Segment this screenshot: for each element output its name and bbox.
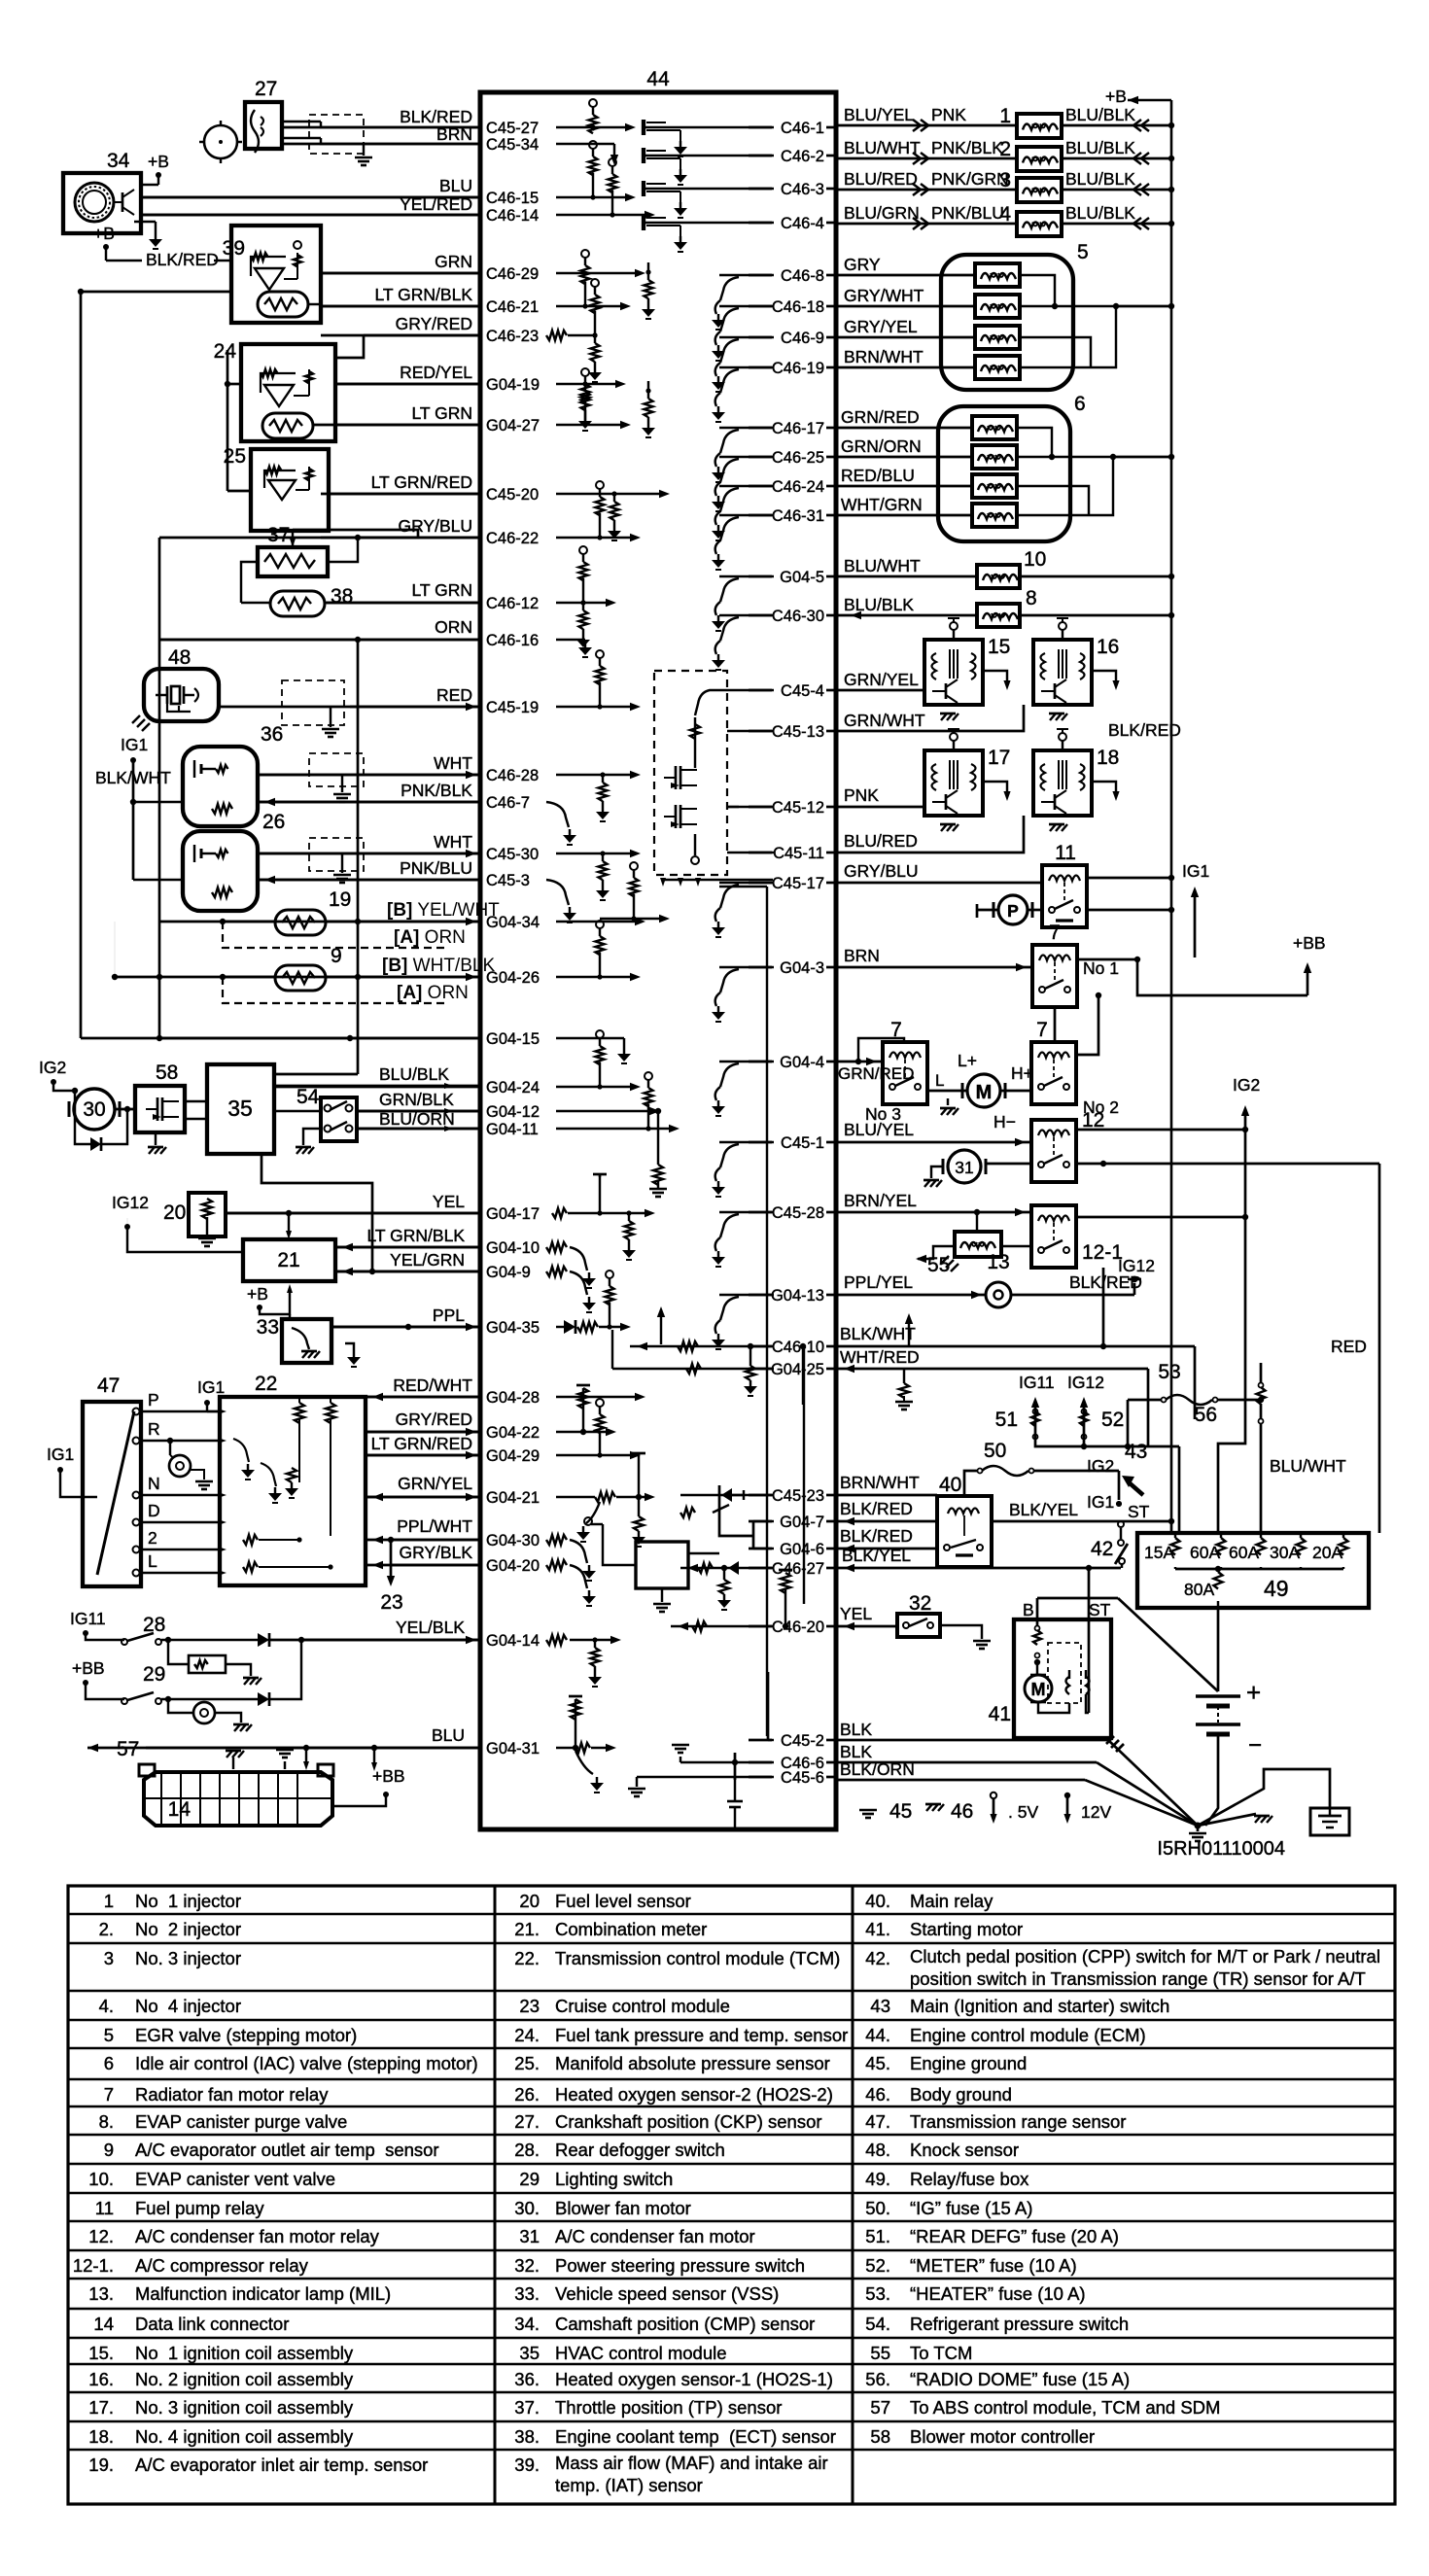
svg-text:No. 3 injector: No. 3 injector	[135, 1948, 241, 1968]
ST wire to starting motor	[1088, 1568, 1091, 1618]
svg-text:C46-16: C46-16	[486, 632, 539, 649]
svg-text:GRY/WHT: GRY/WHT	[844, 286, 924, 305]
svg-text:16: 16	[1097, 636, 1119, 658]
svg-text:BLU/RED: BLU/RED	[844, 831, 918, 851]
svg-text:C46-12: C46-12	[486, 595, 539, 612]
ECM internal driver block (C45-4/13/12/11)	[654, 671, 727, 875]
svg-text:BLU/YEL: BLU/YEL	[844, 1120, 914, 1139]
svg-text:56.: 56.	[865, 2369, 890, 2389]
svg-text:Throttle position (TP) sensor: Throttle position (TP) sensor	[555, 2397, 782, 2418]
svg-text:PNK/BLK: PNK/BLK	[401, 781, 472, 800]
svg-text:25: 25	[224, 445, 246, 468]
svg-text:13.: 13.	[88, 2283, 114, 2304]
svg-text:C45-11: C45-11	[773, 845, 824, 862]
svg-text:No 1 injector: No 1 injector	[135, 1891, 241, 1911]
svg-text:18.: 18.	[88, 2426, 114, 2447]
svg-text:C46-1: C46-1	[781, 120, 824, 137]
svg-text:L: L	[148, 1551, 157, 1571]
svg-text:PPL/WHT: PPL/WHT	[397, 1516, 472, 1536]
svg-text:15.: 15.	[88, 2343, 114, 2363]
svg-text:PPL/YEL: PPL/YEL	[844, 1272, 913, 1292]
svg-text:Clutch pedal position (CPP) sw: Clutch pedal position (CPP) switch for M…	[910, 1946, 1380, 1967]
svg-text:1: 1	[104, 1891, 114, 1911]
svg-text:7: 7	[1036, 1019, 1048, 1041]
TCM to ECM wires	[366, 1396, 480, 1399]
engine control module ECM U44 box	[480, 92, 836, 1829]
svg-text:YEL/GRN: YEL/GRN	[390, 1250, 465, 1270]
svg-text:G04-5: G04-5	[780, 569, 824, 586]
svg-text:M: M	[976, 1082, 993, 1103]
svg-text:BRN: BRN	[436, 124, 472, 144]
svg-text:BRN/WHT: BRN/WHT	[840, 1473, 920, 1492]
svg-text:29: 29	[143, 1663, 165, 1686]
svg-text:C46-29: C46-29	[486, 265, 539, 283]
svg-text:D: D	[148, 1501, 160, 1520]
svg-text:BLU/YEL: BLU/YEL	[844, 105, 914, 124]
svg-text:53.: 53.	[865, 2283, 890, 2304]
combination meter 21	[243, 1239, 335, 1281]
radiator fan motor M	[967, 1074, 1000, 1107]
svg-text:C45-19: C45-19	[486, 699, 539, 716]
svg-text:BLU/RED: BLU/RED	[844, 169, 918, 189]
svg-text:2: 2	[999, 138, 1011, 160]
svg-text:ST: ST	[1089, 1600, 1111, 1619]
svg-text:RED/WHT: RED/WHT	[393, 1375, 472, 1395]
svg-text:12-1: 12-1	[1082, 1241, 1123, 1264]
svg-text:33: 33	[257, 1316, 279, 1339]
svg-text:+B: +B	[247, 1284, 268, 1304]
svg-text:LT GRN/RED: LT GRN/RED	[371, 1434, 472, 1453]
svg-text:YEL/RED: YEL/RED	[400, 194, 472, 214]
svg-text:27.: 27.	[514, 2111, 540, 2132]
svg-text:Blower fan motor: Blower fan motor	[555, 2198, 691, 2218]
svg-text:BLU/BLK: BLU/BLK	[844, 595, 914, 614]
svg-text:IG11: IG11	[70, 1609, 106, 1628]
svg-text:20: 20	[519, 1891, 540, 1911]
svg-text:23: 23	[519, 1996, 540, 2016]
svg-text:C46-25: C46-25	[772, 449, 824, 467]
wire rail from MAF area down	[80, 292, 83, 1038]
svg-text:19: 19	[329, 888, 351, 911]
svg-text:G04-12: G04-12	[486, 1103, 540, 1121]
svg-text:C46-20: C46-20	[772, 1619, 824, 1636]
svg-text:22: 22	[255, 1373, 277, 1395]
svg-text:RED/YEL: RED/YEL	[400, 363, 472, 382]
svg-text:Relay/fuse box: Relay/fuse box	[910, 2169, 1029, 2189]
A/C compressor relay 12-1	[1031, 1205, 1076, 1268]
A/C condenser fan motor relay 12	[1031, 1120, 1076, 1182]
svg-text:WHT/GRN: WHT/GRN	[841, 495, 923, 514]
svg-text:No 1: No 1	[1083, 958, 1119, 978]
svg-text:12: 12	[1082, 1109, 1104, 1131]
svg-text:35: 35	[519, 2343, 540, 2363]
svg-text:PNK: PNK	[844, 785, 879, 805]
ECM internal vertical 2	[803, 1346, 805, 1604]
svg-text:IG11: IG11	[1019, 1373, 1055, 1392]
wire ORN junction to HVAC	[357, 640, 360, 1074]
svg-text:WHT: WHT	[434, 753, 472, 773]
svg-text:BLU/GRN: BLU/GRN	[844, 203, 920, 223]
svg-text:Refrigerant pressure switch: Refrigerant pressure switch	[910, 2314, 1129, 2334]
svg-text:C46-3: C46-3	[781, 181, 824, 198]
svg-text:“RADIO DOME” fuse (15 A): “RADIO DOME” fuse (15 A)	[910, 2369, 1130, 2389]
svg-text:PNK/BLU: PNK/BLU	[400, 858, 472, 878]
ECM pins G04-7/G04-6 bracket	[752, 1521, 755, 1549]
svg-text:LT GRN/BLK: LT GRN/BLK	[375, 285, 473, 304]
svg-text:38.: 38.	[514, 2426, 540, 2447]
svg-text:36: 36	[261, 723, 283, 746]
svg-text:L: L	[935, 1071, 944, 1090]
svg-text:35: 35	[227, 1096, 253, 1121]
svg-text:A/C compressor relay: A/C compressor relay	[135, 2255, 309, 2276]
ORN bus wire	[81, 1037, 480, 1040]
svg-text:G04-15: G04-15	[486, 1030, 540, 1048]
svg-text:Lighting switch: Lighting switch	[555, 2169, 673, 2189]
svg-text:33.: 33.	[514, 2283, 540, 2304]
svg-text:60A: 60A	[1229, 1543, 1259, 1562]
svg-text:G04-10: G04-10	[486, 1239, 540, 1257]
svg-text:12.: 12.	[88, 2226, 114, 2246]
svg-text:Heated oxygen sensor-2 (HO2S-2: Heated oxygen sensor-2 (HO2S-2)	[555, 2084, 833, 2105]
svg-text:21.: 21.	[514, 1919, 540, 1939]
svg-text:G04-30: G04-30	[486, 1532, 540, 1549]
A/C evaporator outlet air temp sensor 9	[275, 965, 326, 991]
svg-text:C46-31: C46-31	[772, 507, 824, 525]
svg-text:R: R	[148, 1419, 160, 1439]
svg-text:No. 3 ignition coil assembly: No. 3 ignition coil assembly	[135, 2397, 354, 2418]
svg-text:“REAR DEFG” fuse (20 A): “REAR DEFG” fuse (20 A)	[910, 2226, 1119, 2246]
svg-text:26: 26	[262, 811, 285, 833]
svg-text:30.: 30.	[514, 2198, 540, 2218]
svg-text:C46-10: C46-10	[772, 1339, 824, 1356]
svg-text:WHT/RED: WHT/RED	[840, 1347, 920, 1367]
svg-text:46: 46	[951, 1800, 973, 1823]
svg-text:+B: +B	[1105, 87, 1127, 106]
svg-text:G04-7: G04-7	[780, 1514, 824, 1531]
No 3 ignition coil assembly 17	[924, 750, 983, 816]
svg-text:G04-29: G04-29	[486, 1447, 540, 1465]
svg-text:To ABS control module, TCM and: To ABS control module, TCM and SDM	[910, 2397, 1220, 2418]
svg-text:Body ground: Body ground	[910, 2084, 1012, 2105]
svg-text:53: 53	[1158, 1361, 1180, 1383]
svg-text:IG12: IG12	[1067, 1373, 1104, 1392]
legend table	[68, 1886, 1395, 2504]
svg-text:BLU: BLU	[432, 1725, 465, 1745]
svg-text:38: 38	[331, 585, 353, 608]
svg-text:C46-28: C46-28	[486, 767, 539, 784]
svg-text:43: 43	[870, 1996, 890, 2016]
svg-text:C46-7: C46-7	[486, 794, 530, 812]
svg-text:C45-13: C45-13	[772, 723, 824, 741]
svg-text:BLK/RED: BLK/RED	[1108, 720, 1181, 740]
svg-text:43: 43	[1125, 1441, 1147, 1463]
svg-text:LT GRN: LT GRN	[411, 580, 472, 600]
svg-text:IG1: IG1	[121, 735, 148, 754]
svg-text:50.: 50.	[865, 2198, 890, 2218]
svg-text:BLU/BLK: BLU/BLK	[1065, 169, 1135, 189]
svg-text:[A] ORN: [A] ORN	[394, 927, 466, 948]
svg-text:EVAP canister purge valve: EVAP canister purge valve	[135, 2111, 347, 2132]
svg-text:20: 20	[163, 1201, 186, 1224]
svg-text:HVAC control module: HVAC control module	[555, 2343, 727, 2363]
svg-text:GRY/RED: GRY/RED	[396, 314, 472, 333]
svg-text:7: 7	[104, 2084, 114, 2105]
wire evap sensors to HVAC	[274, 1073, 358, 1076]
svg-text:17.: 17.	[88, 2397, 114, 2418]
svg-text:LT GRN/BLK: LT GRN/BLK	[367, 1226, 466, 1245]
svg-text:G04-27: G04-27	[486, 417, 540, 435]
svg-text:BLU/BLK: BLU/BLK	[1065, 105, 1135, 124]
svg-text:BLK/RED: BLK/RED	[1069, 1272, 1142, 1292]
svg-text:6: 6	[104, 2053, 114, 2073]
svg-text:40: 40	[939, 1474, 961, 1496]
svg-text:C46-4: C46-4	[781, 215, 824, 232]
svg-text:GRN/ORN: GRN/ORN	[841, 436, 922, 456]
radiator fan motor relay 7 No3	[883, 1042, 927, 1104]
svg-text:IG2: IG2	[1233, 1075, 1260, 1095]
svg-text:58: 58	[870, 2426, 890, 2447]
svg-text:Engine ground: Engine ground	[910, 2053, 1027, 2073]
svg-text:+BB: +BB	[1293, 933, 1326, 953]
relay/fuse box 49	[1137, 1533, 1369, 1608]
No 4 ignition coil assembly 18	[1033, 750, 1092, 816]
svg-text:4.: 4.	[99, 1996, 114, 2016]
svg-text:IG2: IG2	[1087, 1456, 1114, 1476]
svg-text:52.: 52.	[865, 2255, 890, 2276]
svg-text:G04-11: G04-11	[486, 1121, 539, 1138]
svg-text:3: 3	[999, 169, 1011, 191]
svg-text:1: 1	[999, 105, 1011, 127]
svg-text:BRN/YEL: BRN/YEL	[844, 1191, 917, 1210]
svg-text:EVAP canister vent valve: EVAP canister vent valve	[135, 2169, 335, 2189]
svg-text:Manifold absolute pressure sen: Manifold absolute pressure sensor	[555, 2053, 830, 2073]
svg-text:G04-24: G04-24	[486, 1079, 540, 1097]
EVAP canister purge valve 8	[977, 604, 1020, 627]
svg-text:8: 8	[1026, 587, 1037, 609]
svg-text:C45-23: C45-23	[772, 1487, 824, 1505]
svg-text:11: 11	[1055, 842, 1076, 864]
svg-text:Power steering pressure switch: Power steering pressure switch	[555, 2255, 805, 2276]
svg-text:Data link connector: Data link connector	[135, 2314, 289, 2334]
svg-text:RED: RED	[436, 685, 472, 705]
svg-text:51: 51	[995, 1409, 1018, 1431]
svg-text:9: 9	[104, 2140, 114, 2160]
svg-text:Mass air flow (MAF) and intake: Mass air flow (MAF) and intake air	[555, 2453, 828, 2473]
svg-text:26.: 26.	[514, 2084, 540, 2105]
svg-text:C46-2: C46-2	[781, 148, 824, 165]
svg-text:9: 9	[331, 945, 342, 967]
A/C evaporator inlet air temp sensor 19	[275, 910, 326, 935]
svg-text:“HEATER” fuse (10 A): “HEATER” fuse (10 A)	[910, 2283, 1086, 2304]
svg-text:No. 4 ignition coil assembly: No. 4 ignition coil assembly	[135, 2426, 354, 2447]
svg-text:37: 37	[267, 524, 290, 546]
svg-text:PNK: PNK	[931, 105, 966, 124]
svg-text:80A: 80A	[1184, 1580, 1214, 1599]
svg-text:36.: 36.	[514, 2369, 540, 2389]
svg-text:ST: ST	[1128, 1502, 1150, 1521]
feed to 80A	[1218, 1400, 1245, 1533]
svg-text:42.: 42.	[865, 1948, 890, 1968]
svg-text:+BB: +BB	[372, 1766, 405, 1786]
svg-text:4: 4	[999, 203, 1011, 226]
svg-text:22.: 22.	[514, 1948, 540, 1968]
svg-text:A/C condenser fan motor relay: A/C condenser fan motor relay	[135, 2226, 380, 2246]
svg-text:BLU/BLK: BLU/BLK	[1065, 138, 1135, 157]
svg-text:YEL/BLK: YEL/BLK	[396, 1618, 465, 1637]
svg-text:27: 27	[255, 78, 277, 100]
svg-text:Idle air control (IAC) valve (: Idle air control (IAC) valve (stepping m…	[135, 2053, 478, 2073]
svg-text:Engine control module (ECM): Engine control module (ECM)	[910, 2025, 1146, 2045]
svg-text:G04-25: G04-25	[771, 1361, 824, 1378]
HVAC control module 35	[207, 1064, 274, 1154]
svg-text:G04-6: G04-6	[780, 1541, 824, 1558]
svg-text:15: 15	[988, 636, 1010, 658]
svg-text:21: 21	[277, 1249, 299, 1271]
svg-text:28: 28	[143, 1614, 165, 1636]
svg-text:GRN/YEL: GRN/YEL	[398, 1474, 472, 1493]
svg-text:Transmission range sensor: Transmission range sensor	[910, 2111, 1126, 2132]
svg-text:37.: 37.	[514, 2397, 540, 2418]
svg-text:C46-15: C46-15	[486, 190, 539, 207]
svg-text:C46-21: C46-21	[486, 298, 539, 316]
svg-text:14: 14	[93, 2314, 114, 2334]
svg-text:2.: 2.	[99, 1919, 114, 1939]
svg-text:C46-9: C46-9	[781, 330, 824, 347]
svg-text:45.: 45.	[865, 2053, 890, 2073]
svg-text:29: 29	[519, 2169, 540, 2189]
svg-text:10.: 10.	[88, 2169, 114, 2189]
svg-text:C46-14: C46-14	[486, 207, 539, 225]
svg-text:BLK/RED: BLK/RED	[400, 107, 472, 126]
svg-text:No 4 injector: No 4 injector	[135, 1996, 241, 2016]
svg-text:Cruise control module: Cruise control module	[555, 1996, 730, 2016]
svg-text:A/C condenser fan motor: A/C condenser fan motor	[555, 2226, 755, 2246]
svg-text:“METER” fuse (10 A): “METER” fuse (10 A)	[910, 2255, 1077, 2276]
svg-text:Fuel tank pressure and temp. s: Fuel tank pressure and temp. sensor	[555, 2025, 848, 2045]
svg-text:41.: 41.	[865, 1919, 890, 1939]
svg-text:BLU/BLK: BLU/BLK	[379, 1064, 449, 1084]
svg-text:BLK/RED: BLK/RED	[840, 1499, 913, 1518]
svg-text:H−: H−	[993, 1112, 1016, 1131]
radiator fan motor relay 7 No1	[1032, 945, 1077, 1007]
svg-text:G04-35: G04-35	[486, 1319, 540, 1337]
radiator fan motor relay 7 No2	[1031, 1042, 1076, 1104]
svg-text:G04-22: G04-22	[486, 1424, 540, 1442]
A/C condenser fan motor 31	[948, 1150, 981, 1183]
svg-text:49.: 49.	[865, 2169, 890, 2189]
svg-text:Engine coolant temp (ECT) sen: Engine coolant temp (ECT) sensor	[555, 2426, 836, 2447]
svg-text:−: −	[1248, 1732, 1262, 1758]
svg-text:PPL: PPL	[433, 1305, 465, 1325]
svg-text:51.: 51.	[865, 2226, 890, 2246]
svg-text:+B: +B	[148, 152, 169, 171]
svg-text:54.: 54.	[865, 2314, 890, 2334]
svg-text:Camshaft position (CMP) sensor: Camshaft position (CMP) sensor	[555, 2314, 815, 2334]
ECM internal interface block	[636, 1542, 688, 1588]
crankshaft position CKP sensor 27	[245, 102, 282, 149]
svg-text:GRY/BLK: GRY/BLK	[399, 1543, 472, 1562]
svg-text:47.: 47.	[865, 2111, 890, 2132]
svg-text:C45-6: C45-6	[781, 1769, 824, 1787]
svg-text:45: 45	[889, 1800, 912, 1823]
mass air flow MAF sensor 39	[231, 226, 321, 323]
svg-text:LT GRN: LT GRN	[411, 403, 472, 423]
svg-text:5: 5	[104, 2025, 114, 2045]
svg-text:BLU/WHT: BLU/WHT	[844, 556, 921, 575]
svg-text:P: P	[148, 1390, 159, 1410]
svg-text:I5RH01110004: I5RH01110004	[1157, 1838, 1285, 1860]
svg-text:. 5V: . 5V	[1008, 1802, 1038, 1822]
svg-text:PNK/BLU: PNK/BLU	[931, 203, 1004, 223]
fuel pump motor P	[998, 895, 1028, 924]
svg-text:Rear defogger switch: Rear defogger switch	[555, 2140, 725, 2160]
svg-text:BLU/WHT: BLU/WHT	[1270, 1456, 1346, 1476]
svg-text:G04-31: G04-31	[486, 1740, 540, 1758]
svg-text:BLK/WHT: BLK/WHT	[95, 768, 171, 787]
svg-text:5: 5	[1077, 241, 1089, 263]
svg-text:56: 56	[1195, 1404, 1217, 1426]
svg-text:BLK/WHT: BLK/WHT	[840, 1324, 916, 1343]
svg-text:46.: 46.	[865, 2084, 890, 2105]
svg-text:+BB: +BB	[72, 1658, 105, 1678]
svg-text:Knock sensor: Knock sensor	[910, 2140, 1019, 2160]
svg-text:19.: 19.	[88, 2454, 114, 2475]
fuel pump relay 11	[1042, 865, 1087, 927]
svg-text:50: 50	[984, 1440, 1006, 1462]
svg-text:25.: 25.	[514, 2053, 540, 2073]
svg-text:M: M	[1031, 1680, 1046, 1699]
svg-text:BLK/RED: BLK/RED	[840, 1526, 913, 1546]
svg-text:G04-20: G04-20	[486, 1557, 540, 1575]
svg-text:49: 49	[1264, 1576, 1289, 1601]
svg-text:34.: 34.	[514, 2314, 540, 2334]
svg-text:C45-3: C45-3	[486, 872, 530, 889]
engine coolant temp ECT sensor 38	[270, 591, 325, 616]
svg-text:A/C evaporator inlet air temp.: A/C evaporator inlet air temp. sensor	[135, 2454, 428, 2475]
manifold absolute pressure sensor 25	[251, 449, 329, 531]
svg-text:IG2: IG2	[39, 1058, 66, 1077]
svg-text:+: +	[1246, 1678, 1261, 1707]
svg-text:RED/BLU: RED/BLU	[841, 466, 915, 485]
malfunction indicator lamp MIL 13	[836, 1294, 986, 1297]
svg-text:Fuel level sensor: Fuel level sensor	[555, 1891, 691, 1911]
knock sensor 48	[144, 669, 219, 721]
svg-text:No 2 injector: No 2 injector	[135, 1919, 241, 1939]
svg-text:Combination meter: Combination meter	[555, 1919, 707, 1939]
svg-text:13: 13	[987, 1251, 1009, 1273]
svg-text:BLK/ORN: BLK/ORN	[840, 1759, 915, 1779]
svg-text:BLK/YEL: BLK/YEL	[842, 1546, 911, 1565]
svg-text:C46-19: C46-19	[772, 360, 824, 377]
svg-text:PNK/GRN: PNK/GRN	[931, 169, 1009, 189]
svg-text:C45-12: C45-12	[772, 799, 824, 817]
svg-text:YEL: YEL	[840, 1604, 872, 1623]
svg-text:2: 2	[148, 1528, 157, 1548]
heated oxygen sensor-2 HO2S-2 26	[183, 831, 258, 911]
svg-text:BLK: BLK	[840, 1742, 872, 1761]
svg-text:IG12: IG12	[112, 1193, 149, 1212]
ORN wire to C46-16	[159, 639, 480, 642]
svg-text:57: 57	[870, 2397, 890, 2418]
svg-text:C45-28: C45-28	[772, 1204, 824, 1222]
svg-text:48.: 48.	[865, 2140, 890, 2160]
svg-text:C46-24: C46-24	[772, 478, 824, 496]
svg-text:IG1: IG1	[197, 1377, 225, 1397]
svg-text:34: 34	[107, 150, 130, 172]
svg-text:[B] WHT/BLK: [B] WHT/BLK	[382, 956, 495, 976]
svg-text:58: 58	[156, 1062, 178, 1084]
svg-text:24: 24	[214, 340, 237, 363]
